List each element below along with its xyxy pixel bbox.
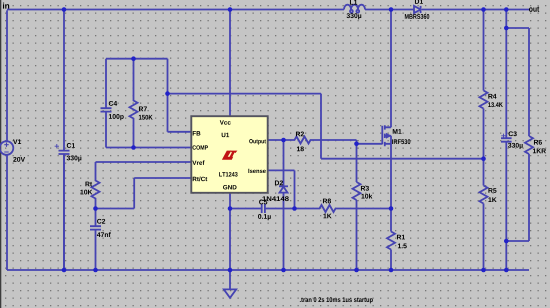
wire D2 bottom	[283, 193, 285, 270]
node gate/R3 junction	[354, 142, 359, 147]
wire R6 top lead	[528, 28, 530, 136]
wire R3 column	[356, 144, 358, 182]
wire L1 to D1	[365, 9, 414, 11]
wire V1 bottom	[6, 155, 8, 270]
wire R6 bottom lead	[528, 154, 530, 241]
wire C1 top	[63, 10, 65, 151]
node R3 ground junction	[354, 268, 359, 273]
wire Isense vertical	[294, 170, 296, 208]
LT logo (red)	[222, 151, 238, 160]
node L1/D1/M1 drain junction	[389, 7, 394, 12]
wire FB pin stub	[168, 131, 192, 133]
wire Isense line GND to C5	[230, 208, 262, 210]
node C3 ground junction	[504, 268, 509, 273]
node in label	[3, 3, 9, 9]
wire GND column	[229, 193, 231, 290]
capacitor C1 (polarized)	[59, 151, 70, 270]
wire R3 to ground rail	[356, 200, 358, 270]
capacitor C2	[90, 209, 101, 271]
wire Vcc column	[229, 10, 231, 117]
node Rt/C2 junction	[93, 206, 98, 211]
wire R4 to sense node	[483, 109, 485, 159]
node R1 ground junction	[389, 268, 394, 273]
node FB feed junction	[165, 91, 170, 96]
voltage source V1	[0, 141, 13, 155]
wire step to gate	[357, 143, 383, 145]
node C4/R7 bracket junction	[131, 56, 136, 61]
wire COMP bracket	[106, 147, 192, 149]
wire R4 column top	[483, 10, 485, 91]
node C3/R6 bottom junction	[504, 239, 509, 244]
resistor R7	[130, 59, 138, 148]
wire FB column	[167, 59, 169, 132]
wire FB sense rail	[321, 158, 484, 160]
wire R1 to ground rail	[390, 250, 392, 271]
transistor M1 IRF530 (NMOS)	[382, 125, 391, 146]
resistor R3	[353, 182, 361, 200]
ground	[224, 289, 236, 297]
wire V1 top	[6, 10, 8, 141]
wire Vref to Rt	[96, 161, 192, 163]
node R5 ground junction	[481, 268, 486, 273]
wire R8 to sense node	[337, 208, 392, 210]
node GND/Isense-line junction	[228, 206, 233, 211]
node sense/R1 junction	[389, 206, 394, 211]
wire M1 drain	[390, 10, 392, 128]
wire FB feed vertical	[320, 94, 322, 159]
diode D1 MBRS360	[414, 6, 421, 13]
wire R6 branch	[506, 27, 529, 29]
resistor R8	[319, 205, 337, 212]
diode D2 1N4148	[279, 186, 288, 192]
wire D2 top	[283, 140, 285, 186]
resistor R6	[525, 136, 533, 154]
wire R2 to step	[312, 139, 357, 141]
node C2 ground junction	[93, 268, 98, 273]
wire RtCt pin stub	[134, 177, 191, 179]
node Output/R2/D2 junction	[281, 138, 286, 143]
wire Isense stub	[268, 169, 295, 171]
wire RtCt link vertical	[133, 178, 135, 209]
inductor L1	[344, 5, 365, 10]
capacitor C3 (polarized)	[501, 138, 512, 142]
capacitor C5	[262, 204, 265, 213]
node FB divider junction	[481, 156, 486, 161]
wire gate step	[356, 140, 358, 144]
wire R5 to ground rail	[483, 204, 485, 271]
resistor R2	[294, 137, 312, 144]
wire D1 to 'out'	[422, 9, 530, 11]
node C3 top junction	[504, 7, 509, 12]
node D2 ground junction	[281, 268, 286, 273]
wire R6 return	[506, 240, 529, 242]
wire FB feed horizontal	[168, 93, 322, 95]
op-amp U1 LT1243 (PWM controller)	[191, 116, 267, 193]
resistor R1	[387, 232, 395, 250]
wire RtCt link horizontal	[96, 208, 135, 210]
wire R5 column top	[483, 159, 485, 186]
wire ground rail	[7, 269, 529, 271]
node out label	[529, 6, 539, 11]
resistor Rt	[92, 162, 100, 209]
spice directive .tran	[300, 297, 373, 303]
node Vcc top junction	[228, 7, 233, 12]
node in/C1 junction	[62, 7, 67, 12]
node GND rail junction	[228, 268, 233, 273]
node Isense junction	[292, 206, 297, 211]
resistor R4	[480, 91, 488, 109]
capacitor C4	[101, 59, 112, 148]
wire C3 bottom	[505, 142, 507, 270]
wire C4-R7 top bracket	[106, 58, 168, 60]
wire M1 source column	[390, 136, 392, 232]
node R4 top junction	[481, 7, 486, 12]
wire C3 column top	[505, 10, 507, 139]
resistor R5	[480, 186, 488, 204]
wire Output pin to R2	[268, 139, 294, 141]
node COMP junction	[131, 145, 136, 150]
wire top rail 'in' to L1	[7, 9, 344, 11]
node R6 branch junction	[504, 26, 509, 31]
wire C1 bottom	[63, 154, 65, 270]
wire C5 to R8	[265, 208, 319, 210]
node C1 ground junction	[62, 268, 67, 273]
